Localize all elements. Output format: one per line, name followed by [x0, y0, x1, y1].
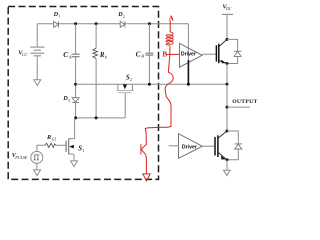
diode DF1 (upper freewheel) — [234, 51, 241, 56]
label RG1 — [46, 134, 57, 141]
svg-text:3: 3 — [68, 99, 70, 103]
label node B (red) — [162, 50, 167, 59]
label S2 — [126, 74, 132, 82]
wire: pulse source bottom lead — [36, 163, 38, 170]
wire: output riser down to lower collector — [226, 84, 228, 131]
wire: lower node rail (D3/Rb/S2gate/S1drain) — [76, 117, 126, 119]
node dot CA top — [74, 22, 77, 25]
label CH — [136, 49, 146, 58]
node dot Rb top — [95, 22, 98, 25]
wire: lower freewheel diode branch — [227, 131, 238, 160]
node dot driver/mid rail — [187, 83, 190, 86]
diode D1 — [54, 21, 59, 27]
wire: Rb vertical branch — [95, 24, 97, 118]
terminal bar Vdc — [222, 13, 233, 15]
diode D2 — [120, 21, 125, 27]
svg-text:C: C — [63, 50, 68, 59]
wire: driver supply line from top rail to mid rail — [187, 24, 189, 85]
label node A (red) — [169, 14, 175, 23]
svg-text:b: b — [105, 54, 108, 59]
ground under pulse source — [34, 170, 41, 176]
svg-text:2: 2 — [123, 15, 125, 19]
node dot D3/S1 — [74, 116, 77, 119]
label Rb — [99, 52, 108, 59]
svg-text:2: 2 — [130, 78, 132, 82]
wire: battery bottom lead — [36, 56, 38, 80]
ground under S1 — [71, 161, 78, 167]
wire: CA vertical branch — [75, 24, 77, 98]
wire: S1 drain riser — [74, 118, 76, 139]
svg-text:A: A — [169, 14, 175, 23]
capacitor CH — [145, 53, 153, 55]
switch S2 — [116, 84, 133, 92]
svg-text:G1: G1 — [52, 137, 57, 141]
op-amp U2 driver (lower) — [179, 134, 203, 159]
node dot upper emitter — [226, 62, 229, 65]
diode D3 — [72, 98, 79, 103]
resistor RG1 — [45, 143, 56, 147]
svg-text:DC: DC — [225, 7, 232, 11]
node dot OUTPUT tap — [226, 106, 229, 109]
wire: red path B down with bump over rail — [145, 46, 173, 144]
red kink loop in path — [141, 144, 147, 155]
wire: emitter to mid rail — [226, 64, 228, 85]
svg-text:OUTPUT: OUTPUT — [232, 99, 257, 105]
battery Vcc — [30, 47, 44, 56]
node dot lower emitter — [226, 158, 229, 161]
wire: red B tap to upper driver input — [167, 53, 180, 55]
transistor Q2 IGBT (lower) — [215, 131, 227, 160]
ground under lower IGBT — [224, 170, 231, 175]
transistor Q1 IGBT (upper) — [216, 39, 227, 63]
wire: battery top lead — [36, 24, 38, 47]
node dot upper collector — [226, 38, 229, 41]
svg-text:PULSE: PULSE — [14, 155, 28, 160]
diode DF2 (lower freewheel) — [235, 144, 242, 149]
wire: upper freewheel diode branch — [227, 39, 238, 63]
red coil (parasitic inductance scribble) — [166, 32, 173, 45]
svg-text:Driver: Driver — [182, 144, 197, 150]
node dot CA/rail junction — [74, 83, 77, 86]
wire: mid rail (emitter node) — [76, 84, 227, 118]
svg-text:Driver: Driver — [181, 51, 196, 57]
svg-text:CC: CC — [22, 52, 28, 57]
svg-text:1: 1 — [82, 149, 84, 153]
wire: lower driver output to IGBT gate — [202, 145, 214, 147]
label D2 — [117, 11, 125, 19]
wire: Vdc lead — [226, 14, 228, 39]
wire: lower emitter to ground — [226, 160, 228, 170]
node dot CH/rail junction — [148, 83, 151, 86]
node dot CH top — [148, 22, 151, 25]
label V_DC — [222, 4, 231, 12]
source V_PULSE — [31, 151, 43, 163]
label CA — [63, 50, 72, 59]
label Driver (upper) — [181, 51, 196, 57]
label D1 — [53, 11, 61, 19]
wire: OUTPUT stub — [227, 106, 250, 108]
wire: pulse source top lead — [37, 145, 45, 151]
svg-text:C: C — [136, 49, 141, 58]
dashed boundary box — [8, 7, 158, 180]
label S1 — [78, 146, 84, 154]
wire: red path A down to coil — [169, 21, 171, 32]
resistor Rb — [93, 48, 98, 58]
wire: upper driver output to IGBT gate — [202, 53, 215, 55]
capacitor CA — [72, 54, 80, 57]
red arrowhead (current direction) — [143, 174, 150, 181]
ground under battery — [34, 80, 41, 86]
label V_CC — [18, 50, 27, 57]
label Driver (lower) — [182, 144, 197, 150]
label OUTPUT — [232, 99, 257, 105]
wire: red path tail to arrow — [145, 155, 148, 174]
svg-text:A: A — [68, 55, 72, 60]
node dot mid rail/output riser — [226, 83, 229, 86]
wire: D3 cathode to lower node rail — [75, 102, 77, 118]
label D3 — [62, 95, 70, 103]
wire: lower driver input stub — [169, 145, 179, 147]
wire: top rail node Vcc/D1/D2/A — [37, 23, 188, 25]
wire: S1 gate lead — [56, 144, 66, 146]
svg-text:H: H — [140, 54, 145, 59]
label V_PULSE — [12, 152, 28, 160]
node dot lower collector — [226, 130, 229, 133]
transistor S1 (MOSFET) — [66, 139, 75, 161]
op-amp U1 driver (upper) — [180, 43, 203, 67]
svg-text:1: 1 — [58, 15, 60, 19]
svg-text:B: B — [162, 50, 167, 59]
node dot Rb bottom — [95, 116, 98, 119]
wire: CH vertical branch — [148, 24, 150, 85]
